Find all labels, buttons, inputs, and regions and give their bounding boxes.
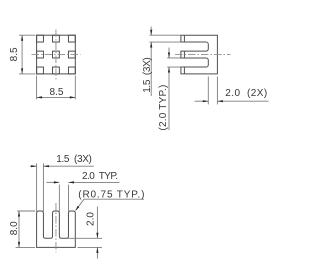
svg-text:(R0.75 TYP.): (R0.75 TYP.) — [78, 190, 145, 201]
svg-text:1.5 (3X): 1.5 (3X) — [142, 58, 153, 93]
svg-text:8.0: 8.0 — [9, 221, 20, 235]
svg-text:8.5: 8.5 — [50, 87, 64, 98]
svg-text:2.0 TYP.: 2.0 TYP. — [82, 171, 117, 182]
svg-text:2.0 (2X): 2.0 (2X) — [225, 88, 267, 99]
svg-text:8.5: 8.5 — [9, 47, 20, 61]
svg-text:(2.0 TYP.): (2.0 TYP.) — [158, 84, 169, 130]
svg-text:1.5 (3X): 1.5 (3X) — [56, 154, 91, 165]
svg-text:2.0: 2.0 — [86, 212, 97, 226]
